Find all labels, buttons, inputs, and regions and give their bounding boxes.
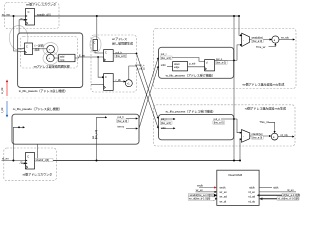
- svg-text:p_stb: p_stb: [189, 61, 196, 65]
- svg-text:pul_o: pul_o: [214, 117, 221, 121]
- svg-text:rd_en: rd_en: [248, 190, 255, 194]
- svg-text:w_fifo_process（アドレス受け機能）: w_fifo_process（アドレス受け機能）: [166, 73, 215, 78]
- svg-text:pul_o: pul_o: [216, 57, 223, 61]
- svg-text:C: C: [105, 76, 107, 79]
- svg-text:wr側アドレスカウンタ: wr側アドレスカウンタ: [26, 2, 56, 7]
- svg-text:r_db: r_db: [115, 78, 121, 82]
- svg-text:rd_dt[bw_d-1:0][8]: rd_dt[bw_d-1:0][8]: [278, 197, 299, 201]
- svg-text:wraddr[bw_a-1:0][6]: wraddr[bw_a-1:0][6]: [190, 193, 213, 197]
- svg-text:wraddr_c[6]: wraddr_c[6]: [37, 12, 51, 16]
- svg-text:[bw_a:0]: [bw_a:0]: [116, 54, 126, 58]
- svg-text:wr_dt: wr_dt: [220, 199, 227, 203]
- svg-text:termu_+: termu_+: [135, 63, 145, 67]
- svg-text:strbi: strbi: [161, 126, 166, 130]
- svg-text:edge: edge: [174, 66, 180, 69]
- svg-text:[bw_a:0]: [bw_a:0]: [214, 121, 224, 125]
- svg-text:rd側アドレスカウンタ: rd側アドレスカウンタ: [23, 172, 53, 177]
- svg-text:_rs: _rs: [18, 16, 23, 20]
- svg-text:[bw_a:0]: [bw_a:0]: [216, 61, 226, 65]
- svg-text:rdclk: rdclk: [249, 186, 255, 190]
- svg-text:w_clk: w_clk: [0, 87, 4, 94]
- svg-text:wr_dt[bw_d-1:0][8]: wr_dt[bw_d-1:0][8]: [189, 197, 211, 201]
- svg-text:=rst: =rst: [60, 58, 65, 62]
- svg-text:pul_h: pul_h: [118, 115, 125, 119]
- svg-text:wr_ad: wr_ad: [220, 194, 228, 198]
- svg-text:Thre_rd: Thre_rd: [259, 120, 269, 124]
- svg-text:rd[bw_a-1:0][6]: rd[bw_a-1:0][6]: [283, 193, 300, 197]
- svg-text:_rs: _rs: [18, 160, 23, 164]
- svg-text:C: C: [28, 11, 30, 14]
- svg-text:ru_fifo_process（アドレス受け機能）: ru_fifo_process（アドレス受け機能）: [166, 109, 216, 114]
- svg-text:wr_en: wr_en: [196, 188, 204, 192]
- svg-text:[bw_a:0]: [bw_a:0]: [161, 121, 171, 125]
- svg-text:wrアドレス設定値同期化部: wrアドレス設定値同期化部: [34, 64, 70, 69]
- svg-text:r_m[1]: r_m[1]: [137, 66, 145, 70]
- svg-text:戻し値同期生成: 戻し値同期生成: [112, 41, 133, 46]
- svg-text:rd_ad: rd_ad: [248, 194, 255, 198]
- svg-text:pul_h: pul_h: [116, 50, 123, 54]
- svg-text:pul_i: pul_i: [161, 117, 167, 121]
- svg-text:C: C: [94, 42, 96, 45]
- svg-text:rd_rdy: rd_rdy: [281, 133, 289, 137]
- svg-text:ff_rst: ff_rst: [79, 53, 85, 57]
- svg-text:rd_do: rd_do: [248, 199, 255, 203]
- svg-text:rdaddr_c[6]: rdaddr_c[6]: [36, 158, 49, 162]
- svg-text:Thre_wr: Thre_wr: [256, 45, 266, 49]
- svg-text:C: C: [27, 156, 29, 159]
- svg-text:wrclk: wrclk: [197, 184, 204, 188]
- svg-text:C: C: [105, 52, 107, 55]
- svg-text:pul_i: pul_i: [161, 52, 167, 56]
- svg-text:rd_en: rd_en: [287, 188, 294, 192]
- svg-text:[bw_a:0]: [bw_a:0]: [252, 136, 262, 140]
- svg-text:wr_ma: wr_ma: [2, 12, 10, 16]
- svg-text:termu: termu: [118, 124, 125, 128]
- svg-text:[bw_a:0]: [bw_a:0]: [252, 39, 262, 43]
- svg-text:C: C: [26, 46, 28, 49]
- svg-text:rdclk: rdclk: [273, 186, 279, 190]
- svg-text:r_clk: r_clk: [0, 107, 4, 113]
- svg-text:wrアドレス: wrアドレス: [112, 36, 127, 41]
- svg-text:strbi: strbi: [161, 63, 166, 67]
- svg-text:[bw_a:0]: [bw_a:0]: [117, 119, 127, 123]
- svg-text:ru_fifo_pseudo（アドレス戻し機能）: ru_fifo_pseudo（アドレス戻し機能）: [13, 106, 62, 111]
- svg-text:設定: 設定: [35, 48, 41, 52]
- svg-text:in_fifo_pseudo（アドレス戻し機能）: in_fifo_pseudo（アドレス戻し機能）: [19, 88, 68, 93]
- svg-text:rd側アドレス進み遅延+rdy生成: rd側アドレス進み遅延+rdy生成: [245, 106, 286, 111]
- svg-text:wr_rdy: wr_rdy: [281, 36, 289, 40]
- svg-text:wr_en: wr_en: [220, 190, 228, 194]
- svg-text:(一定値): (一定値): [35, 44, 45, 48]
- svg-text:Dual RAM: Dual RAM: [229, 173, 243, 177]
- svg-text:rdaddr[w]: rdaddr[w]: [252, 132, 263, 136]
- svg-text:[bw_a:0]: [bw_a:0]: [95, 130, 98, 139]
- svg-text:wr側アドレス進み遅延+rdy生成: wr側アドレス進み遅延+rdy生成: [243, 82, 285, 87]
- svg-text:rd_en: rd_en: [2, 156, 9, 160]
- svg-text:wrclk: wrclk: [220, 186, 227, 190]
- svg-text:[bw_a:0]: [bw_a:0]: [161, 56, 171, 60]
